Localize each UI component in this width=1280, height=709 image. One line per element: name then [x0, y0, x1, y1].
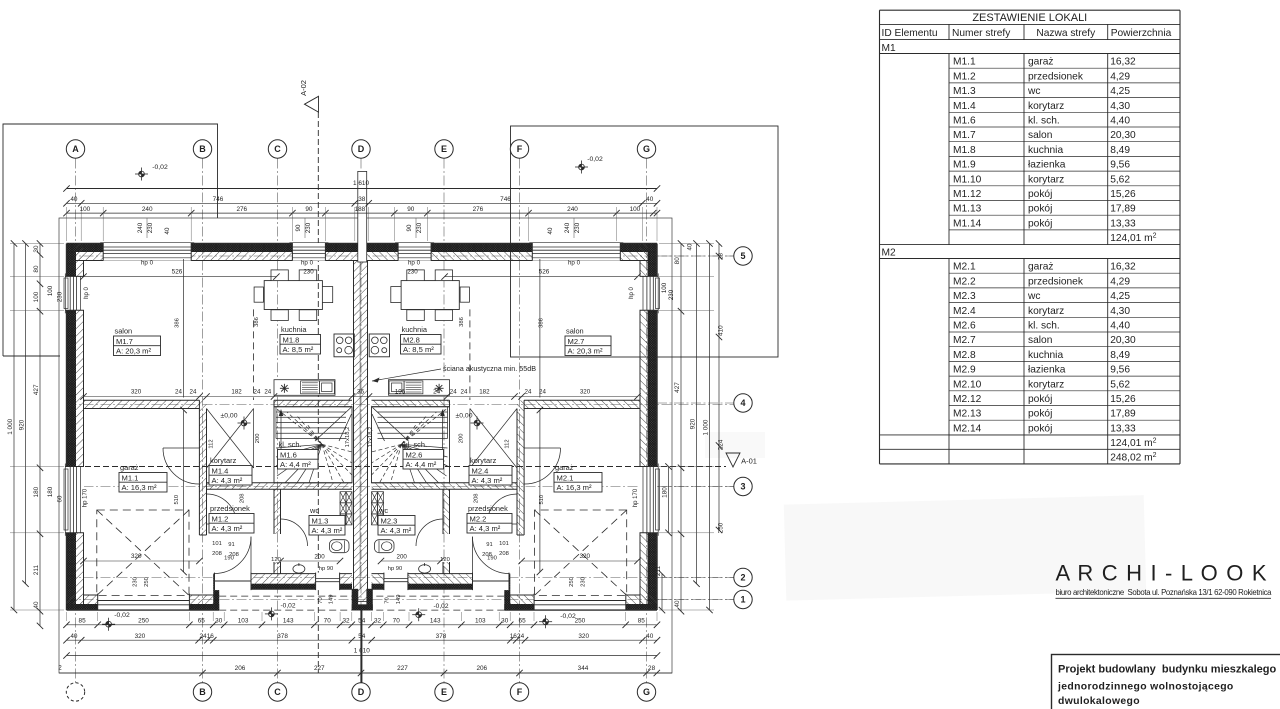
gas point star: [280, 384, 289, 393]
svg-text:90: 90: [406, 224, 413, 231]
svg-text:230: 230: [416, 222, 423, 233]
svg-text:17x18,2: 17x18,2: [368, 427, 374, 448]
svg-text:A: 20,3 m²: A: 20,3 m²: [116, 347, 151, 356]
svg-text:M2.4: M2.4: [953, 306, 976, 317]
svg-text:biuro architektoniczne Sobota: biuro architektoniczne Sobota ul. Poznań…: [1056, 588, 1273, 597]
svg-text:B: B: [199, 144, 206, 154]
svg-text:salon: salon: [1028, 130, 1052, 141]
svg-text:4,40: 4,40: [1110, 321, 1130, 332]
stair break V: [315, 408, 352, 442]
svg-text:8,49: 8,49: [1110, 350, 1130, 361]
svg-text:24: 24: [175, 388, 182, 395]
svg-text:M2.2: M2.2: [470, 514, 487, 523]
svg-text:korytarz: korytarz: [210, 456, 237, 465]
svg-text:180: 180: [47, 486, 54, 497]
svg-text:40: 40: [70, 633, 78, 640]
svg-text:garaż: garaż: [1028, 57, 1053, 68]
svg-text:M1.9: M1.9: [953, 160, 976, 171]
svg-text:200: 200: [255, 434, 261, 444]
svg-text:kuchnia: kuchnia: [281, 325, 307, 334]
bottom dim row 1: [67, 624, 658, 626]
svg-text:15,26: 15,26: [1110, 394, 1136, 405]
level marks -0,02 top: [135, 173, 148, 175]
svg-text:kuchnia: kuchnia: [1028, 145, 1063, 156]
left dim 920: [25, 244, 27, 584]
svg-text:A: 4,3 m²: A: 4,3 m²: [472, 476, 503, 485]
svg-text:A: 16,3 m²: A: 16,3 m²: [122, 483, 157, 492]
svg-text:40: 40: [547, 227, 554, 234]
right dim col 224: [718, 244, 720, 531]
svg-text:250: 250: [569, 577, 575, 587]
svg-text:5,62: 5,62: [1110, 174, 1130, 185]
svg-text:112: 112: [505, 439, 511, 448]
svg-text:kl. sch.: kl. sch.: [1028, 321, 1060, 332]
svg-text:M2.14: M2.14: [953, 423, 982, 434]
svg-text:24: 24: [539, 388, 546, 395]
svg-text:Numer strefy: Numer strefy: [952, 28, 1011, 39]
svg-text:M1.2: M1.2: [953, 71, 976, 82]
wc width dims: [281, 560, 341, 562]
svg-text:5,62: 5,62: [1110, 379, 1130, 390]
svg-text:wc: wc: [1027, 86, 1040, 97]
svg-text:15,26: 15,26: [1110, 189, 1136, 200]
svg-text:188: 188: [355, 206, 366, 213]
svg-text:320: 320: [131, 553, 142, 560]
svg-text:-0,02: -0,02: [152, 164, 168, 171]
svg-text:211: 211: [655, 565, 662, 576]
top dimension row 1: total 1610: [67, 188, 658, 190]
svg-text:276: 276: [473, 206, 484, 213]
washbasin: [293, 565, 305, 573]
right dim 1000: [709, 244, 711, 611]
svg-text:-0,02: -0,02: [433, 603, 448, 610]
svg-text:M2.9: M2.9: [953, 365, 976, 376]
svg-text:pokój: pokój: [1028, 189, 1052, 200]
svg-text:Powierzchnia: Powierzchnia: [1111, 28, 1172, 39]
svg-text:85: 85: [638, 618, 646, 625]
svg-text:salon: salon: [1028, 335, 1052, 346]
svg-text:320: 320: [579, 553, 590, 560]
svg-text:M1.8: M1.8: [283, 335, 300, 344]
svg-text:M1.2: M1.2: [212, 514, 229, 523]
svg-text:143: 143: [430, 618, 441, 625]
svg-text:240: 240: [142, 206, 153, 213]
svg-text:320: 320: [578, 633, 589, 640]
section line A-01 (horizontal dashed): [67, 466, 726, 468]
svg-text:16,32: 16,32: [1110, 57, 1136, 68]
left horizontal extension lines: [10, 243, 64, 245]
svg-text:230: 230: [305, 222, 312, 233]
svg-text:227: 227: [397, 665, 408, 672]
bottom level marks: [102, 623, 115, 625]
svg-text:D: D: [358, 687, 365, 697]
svg-text:1: 1: [740, 595, 745, 605]
svg-text:101: 101: [499, 541, 509, 547]
svg-text:17,89: 17,89: [1110, 409, 1136, 420]
svg-text:90: 90: [305, 206, 313, 213]
partition salon bottom: [84, 400, 200, 408]
svg-text:M2.4: M2.4: [472, 466, 489, 475]
svg-text:240: 240: [137, 222, 144, 233]
svg-text:kl. sch.: kl. sch.: [1028, 116, 1060, 127]
svg-text:103: 103: [475, 618, 486, 625]
svg-text:wc: wc: [378, 506, 388, 515]
garage dim line 510: [183, 410, 185, 572]
svg-text:garaż: garaż: [120, 463, 139, 472]
bottom dim row 2: [67, 639, 658, 641]
window in left wall: [66, 467, 85, 533]
svg-text:wc: wc: [1027, 291, 1040, 302]
grid axis circles top: [66, 140, 84, 158]
svg-text:100: 100: [47, 285, 54, 296]
left dim 1000: [13, 244, 15, 611]
svg-text:60: 60: [57, 495, 64, 502]
svg-text:320: 320: [135, 633, 146, 640]
svg-text:13,33: 13,33: [1110, 218, 1136, 229]
svg-text:korytarz: korytarz: [1028, 174, 1064, 185]
svg-text:427: 427: [33, 384, 40, 395]
svg-text:1 000: 1 000: [7, 418, 14, 434]
svg-text:hp 0: hp 0: [301, 260, 314, 267]
svg-text:hp 90: hp 90: [388, 566, 403, 572]
ventilation shafts: [340, 492, 346, 503]
plan frame thin rectangle: [59, 218, 672, 673]
svg-text:410: 410: [718, 325, 725, 336]
svg-text:40: 40: [70, 196, 78, 203]
svg-text:hp 0: hp 0: [141, 260, 154, 267]
svg-text:-0,02: -0,02: [560, 613, 576, 620]
svg-text:4,30: 4,30: [1110, 101, 1130, 112]
svg-text:-0,02: -0,02: [587, 156, 603, 163]
svg-text:M1.6: M1.6: [280, 450, 297, 459]
bottom dim row 4 axis distances: [59, 672, 672, 674]
svg-text:100: 100: [33, 291, 40, 302]
svg-text:80: 80: [33, 265, 40, 273]
svg-text:124,01 m2: 124,01 m2: [1110, 437, 1156, 449]
svg-text:korytarz: korytarz: [470, 456, 497, 465]
svg-text:190: 190: [487, 556, 497, 562]
svg-text:30: 30: [215, 618, 223, 625]
svg-text:M1.12: M1.12: [953, 189, 982, 200]
svg-text:A-01: A-01: [741, 457, 757, 466]
svg-text:386: 386: [459, 317, 465, 327]
row axes 1-5 dash-dot lines: [67, 255, 734, 257]
wc door arc: [281, 519, 308, 546]
top dim row 3: [67, 212, 658, 214]
svg-text:przedsionek: przedsionek: [468, 504, 508, 513]
svg-text:ZESTAWIENIE LOKALI: ZESTAWIENIE LOKALI: [972, 12, 1087, 24]
svg-text:427: 427: [674, 382, 681, 393]
svg-text:A: A: [72, 144, 79, 154]
garage door opening: [98, 594, 190, 610]
svg-text:746: 746: [500, 196, 511, 203]
context outline top-left: [3, 124, 218, 218]
svg-text:90: 90: [407, 206, 415, 213]
svg-text:240: 240: [564, 222, 571, 233]
svg-text:M1.14: M1.14: [953, 218, 982, 229]
svg-text:A: 16,3 m²: A: 16,3 m²: [557, 483, 592, 492]
svg-text:9,56: 9,56: [1110, 160, 1130, 171]
svg-text:-0,02: -0,02: [114, 612, 130, 619]
svg-text:40: 40: [687, 243, 694, 250]
svg-text:M1.1: M1.1: [122, 473, 139, 482]
right dim 920: [696, 244, 698, 584]
svg-text:kuchnia: kuchnia: [402, 325, 428, 334]
svg-text:M2.6: M2.6: [953, 321, 976, 332]
svg-text:Nazwa strefy: Nazwa strefy: [1036, 28, 1096, 39]
svg-text:A: 4,3 m²: A: 4,3 m²: [381, 526, 412, 535]
svg-text:70: 70: [318, 597, 324, 603]
svg-text:65: 65: [519, 618, 527, 625]
svg-text:211: 211: [33, 564, 40, 575]
svg-text:-0,02: -0,02: [280, 603, 295, 610]
svg-text:M2.10: M2.10: [953, 379, 982, 390]
svg-text:40: 40: [646, 633, 654, 640]
svg-text:227: 227: [314, 665, 325, 672]
svg-text:ściana akustyczna min. 55dB: ściana akustyczna min. 55dB: [443, 364, 536, 373]
wardrobe cross korytarz: [207, 409, 254, 469]
svg-text:208: 208: [212, 551, 222, 557]
svg-text:salon: salon: [115, 327, 133, 336]
svg-text:24: 24: [433, 388, 440, 395]
toilet: [330, 540, 350, 553]
svg-text:C: C: [274, 687, 281, 697]
svg-text:240: 240: [567, 206, 578, 213]
svg-text:M1.10: M1.10: [953, 174, 982, 185]
partition kl.sch / wc divider: [207, 483, 353, 489]
title block: [1052, 655, 1280, 709]
section A-02 flag triangle: [305, 96, 319, 112]
svg-text:3: 3: [740, 482, 745, 492]
svg-text:M1.6: M1.6: [953, 116, 976, 127]
svg-text:224: 224: [718, 439, 725, 450]
svg-text:hp 0: hp 0: [84, 287, 90, 299]
svg-text:F: F: [517, 687, 523, 697]
svg-text:920: 920: [18, 419, 25, 430]
door korytarz-przedsionek arc: [207, 494, 237, 524]
svg-text:C: C: [274, 144, 281, 154]
svg-text:378: 378: [436, 633, 447, 640]
svg-text:M2.13: M2.13: [953, 409, 982, 420]
svg-text:24: 24: [517, 633, 525, 640]
svg-text:M2.3: M2.3: [953, 291, 976, 302]
salon zone line: [183, 259, 185, 398]
svg-text:16,32: 16,32: [1110, 262, 1136, 273]
right dim col 427: [680, 244, 682, 612]
right dim 180: [668, 467, 670, 533]
left dim col 3: [39, 244, 41, 626]
svg-text:250: 250: [138, 618, 149, 625]
svg-text:A-02: A-02: [299, 80, 308, 96]
mid interior dim row: [84, 396, 638, 398]
svg-text:M1.3: M1.3: [953, 86, 976, 97]
svg-text:F: F: [517, 144, 523, 154]
svg-text:230: 230: [581, 577, 587, 587]
svg-text:149: 149: [328, 595, 334, 605]
svg-text:230: 230: [303, 269, 314, 276]
svg-text:pokój: pokój: [1028, 218, 1052, 229]
svg-text:przedsionek: przedsionek: [210, 504, 250, 513]
svg-text:kl. sch.: kl. sch.: [404, 440, 427, 449]
svg-text:124,01 m2: 124,01 m2: [1110, 232, 1156, 244]
grid axis circles bottom: [66, 683, 84, 701]
svg-text:M2.7: M2.7: [568, 337, 585, 346]
entry door opening: [215, 573, 252, 591]
svg-text:208: 208: [499, 551, 509, 557]
svg-text:przedsionek: przedsionek: [1028, 276, 1084, 287]
svg-text:E: E: [441, 687, 447, 697]
svg-text:746: 746: [213, 196, 224, 203]
left unit geometry: [64, 243, 361, 611]
svg-text:40: 40: [33, 601, 40, 609]
svg-text:łazienka: łazienka: [1028, 160, 1066, 171]
svg-text:70: 70: [385, 597, 391, 603]
svg-text:A: 4,3 m²: A: 4,3 m²: [212, 476, 243, 485]
svg-text:70: 70: [393, 618, 401, 625]
chimney rectangle above plan: [358, 171, 367, 262]
partition wc left wall: [274, 489, 281, 534]
svg-text:8,49: 8,49: [1110, 145, 1130, 156]
svg-text:A R C H I - L O O K: A R C H I - L O O K: [1056, 561, 1267, 586]
staircase: [274, 407, 352, 483]
entry door arc: [214, 537, 251, 574]
svg-text:510: 510: [174, 495, 180, 505]
svg-text:M1.4: M1.4: [212, 466, 229, 475]
svg-text:16: 16: [207, 633, 215, 640]
svg-text:13,33: 13,33: [1110, 423, 1136, 434]
svg-text:30: 30: [501, 618, 509, 625]
svg-text:hp 0: hp 0: [568, 260, 581, 267]
svg-text:20,30: 20,30: [1110, 130, 1136, 141]
svg-text:salon: salon: [566, 327, 584, 336]
svg-text:80: 80: [674, 257, 681, 265]
wc window hp90: [316, 573, 340, 591]
svg-text:M2: M2: [882, 248, 896, 259]
svg-text:17,89: 17,89: [1110, 204, 1136, 215]
svg-text:32: 32: [342, 618, 350, 625]
window in left wall: [66, 276, 85, 310]
svg-text:120: 120: [440, 557, 450, 563]
svg-text:pokój: pokój: [1028, 409, 1052, 420]
svg-text:24: 24: [190, 388, 197, 395]
kuchnia open boundary dashed: [253, 309, 255, 400]
svg-text:101: 101: [212, 541, 222, 547]
svg-text:526: 526: [172, 268, 183, 275]
svg-text:230: 230: [57, 291, 64, 302]
svg-text:M2.12: M2.12: [953, 394, 982, 405]
svg-text:20,30: 20,30: [1110, 335, 1136, 346]
svg-text:36: 36: [357, 388, 364, 395]
svg-text:91: 91: [228, 542, 234, 548]
svg-text:M1.3: M1.3: [312, 516, 329, 525]
svg-text:180: 180: [33, 486, 40, 497]
kitchen hob 4 rings: [334, 334, 354, 357]
garage width dim lines: [84, 560, 200, 562]
svg-text:100: 100: [630, 206, 641, 213]
svg-text:4,25: 4,25: [1110, 291, 1130, 302]
svg-text:4,29: 4,29: [1110, 276, 1130, 287]
party wall (acoustic): [354, 261, 368, 590]
svg-text:182: 182: [479, 388, 490, 395]
svg-text:208: 208: [240, 493, 246, 503]
svg-text:24: 24: [525, 388, 532, 395]
storey axis circles 1-5: [657, 255, 734, 257]
svg-text:M1.7: M1.7: [953, 130, 976, 141]
svg-text:250: 250: [144, 577, 150, 587]
svg-text:24: 24: [450, 388, 457, 395]
sill garage window: [64, 469, 68, 530]
svg-text:garaż: garaż: [555, 463, 574, 472]
svg-text:17x18,2: 17x18,2: [345, 427, 351, 448]
svg-text:149: 149: [396, 595, 402, 605]
svg-text:pokój: pokój: [1028, 394, 1052, 405]
svg-text:A: 20,3 m²: A: 20,3 m²: [568, 347, 603, 356]
svg-text:230: 230: [147, 222, 154, 233]
svg-text:M2.1: M2.1: [557, 473, 574, 482]
exterior wall bottom garage section: [67, 595, 220, 604]
svg-text:A: 4,3 m²: A: 4,3 m²: [470, 524, 501, 533]
faint scan shading: [784, 495, 1146, 600]
svg-text:1 610: 1 610: [353, 180, 369, 187]
svg-text:hp 170: hp 170: [83, 488, 89, 507]
svg-text:kuchnia: kuchnia: [1028, 350, 1063, 361]
svg-text:M2.2: M2.2: [953, 276, 976, 287]
svg-text:386: 386: [539, 318, 545, 328]
svg-text:38: 38: [358, 196, 366, 203]
garage parking space dashed box with cross: [97, 510, 189, 595]
svg-text:190: 190: [224, 556, 234, 562]
svg-text:A: 4,4 m²: A: 4,4 m²: [280, 460, 311, 469]
svg-text:4,30: 4,30: [1110, 306, 1130, 317]
svg-text:kl. sch.: kl. sch.: [279, 440, 302, 449]
svg-text:386: 386: [174, 318, 180, 328]
svg-text:510: 510: [539, 495, 545, 505]
svg-text:M1.1: M1.1: [953, 57, 976, 68]
svg-text:A: 4,4 m²: A: 4,4 m²: [406, 460, 437, 469]
svg-text:garaż: garaż: [1028, 262, 1053, 273]
svg-text:G: G: [643, 687, 650, 697]
svg-text:4: 4: [740, 398, 745, 408]
svg-text:40: 40: [164, 227, 171, 234]
svg-text:230: 230: [574, 222, 581, 233]
stair direction arrow: [280, 413, 282, 455]
partition korytarz vertical: [199, 400, 206, 535]
svg-text:pokój: pokój: [1028, 423, 1052, 434]
svg-text:91: 91: [486, 542, 492, 548]
svg-text:B: B: [199, 687, 206, 697]
svg-text:28: 28: [648, 665, 656, 672]
svg-text:200: 200: [397, 554, 408, 561]
svg-text:Projekt budowlany budynku mie: Projekt budowlany budynku mieszkalego: [1058, 664, 1276, 676]
interior dim line 526 right: [445, 276, 638, 278]
svg-text:hp 170: hp 170: [633, 488, 639, 507]
svg-text:dwulokalowego: dwulokalowego: [1058, 696, 1140, 707]
svg-text:M2.8: M2.8: [403, 335, 420, 344]
svg-text:G: G: [643, 144, 650, 154]
svg-text:5: 5: [740, 251, 745, 261]
porch step dashes: [219, 595, 352, 597]
svg-text:24: 24: [461, 388, 468, 395]
party wall continues into porch: [358, 589, 367, 601]
svg-text:hp 0: hp 0: [629, 287, 635, 299]
svg-text:230: 230: [133, 577, 139, 587]
svg-text:2: 2: [740, 573, 745, 583]
svg-text:112: 112: [209, 439, 215, 448]
svg-text:D: D: [358, 144, 365, 154]
svg-text:hp 0: hp 0: [408, 260, 421, 267]
svg-text:32: 32: [374, 618, 382, 625]
window in top wall: [292, 243, 325, 261]
